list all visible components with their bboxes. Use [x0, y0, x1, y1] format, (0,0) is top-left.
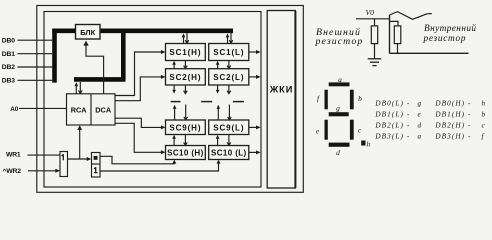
svg-text:f: f [482, 132, 485, 140]
wire block A to block B with arrow [68, 157, 92, 161]
7-segment: segment g [329, 112, 349, 116]
mapping table row DB2 [374, 121, 485, 129]
svg-text:^WR2: ^WR2 [3, 167, 22, 175]
mapping table row DB1 [374, 111, 486, 119]
svg-text:SC1(L): SC1(L) [213, 48, 244, 57]
arrow pair SC9(H)-SC10(H) [172, 135, 187, 146]
arrow pair SC1(L)-SC2(L) [216, 61, 231, 69]
svg-text:SC10 (H): SC10 (H) [167, 149, 204, 158]
svg-text:DB2: DB2 [2, 64, 15, 71]
arrow pair bus to SC1(H) [182, 33, 189, 44]
svg-text:SC9(L): SC9(L) [213, 123, 244, 132]
mapping table row DB3 [374, 132, 484, 140]
svg-text:DB0(L) -: DB0(L) - [374, 100, 410, 108]
7-segment: segment d [329, 143, 350, 147]
svg-text:DB2(L) -: DB2(L) - [374, 121, 410, 129]
svg-text:SC9(H): SC9(H) [169, 123, 201, 132]
svg-text:ЖКИ: ЖКИ [269, 85, 294, 95]
svg-text:d: d [418, 121, 423, 129]
svg-text:DB3(H) -: DB3(H) - [434, 132, 471, 140]
arrow SC9(L) to LCD [249, 125, 261, 129]
svg-text:A0: A0 [10, 106, 18, 113]
arrow SC2(L) to LCD [249, 75, 261, 79]
arrow SC1(L) to LCD [249, 50, 261, 54]
svg-text:RCA: RCA [71, 105, 88, 114]
svg-text:DB0(H) -: DB0(H) - [434, 100, 471, 108]
mapping table row DB0 [374, 100, 486, 108]
wire DCA to БЛК with up arrow [83, 41, 103, 94]
svg-text:g: g [336, 103, 340, 112]
svg-text:h: h [367, 140, 371, 149]
7-segment: segment a [329, 82, 350, 86]
svg-text:DB0: DB0 [2, 38, 15, 45]
inner frame [44, 12, 261, 188]
data bus middle vertical [121, 29, 126, 80]
wire rail corner down [389, 15, 391, 53]
7-segment: segment c [350, 120, 354, 140]
wire resistor to ground [374, 44, 376, 59]
data bus top horizontal [52, 28, 233, 33]
svg-text:b: b [358, 94, 362, 103]
register SC1(H) [166, 44, 206, 61]
svg-text:SC1(H): SC1(H) [169, 48, 201, 57]
register SC10(H) [166, 146, 206, 160]
wire DCA to SC2(H) [115, 75, 166, 101]
wire block B to SC10(L) bottom [100, 160, 221, 171]
wire V0 rail [356, 18, 390, 20]
block БЛК [76, 25, 101, 40]
arrow pair above SC9(H) [173, 105, 188, 121]
label internal resistor [423, 23, 477, 44]
register SC2(L) [209, 69, 249, 85]
svg-text:SC2(L): SC2(L) [213, 73, 244, 82]
svg-text:резистор: резистор [423, 34, 467, 44]
wire DB0 [18, 39, 53, 41]
svg-text:d: d [336, 148, 340, 157]
7-segment: segment e [325, 120, 328, 140]
wire WR1 [28, 154, 61, 156]
arrow pair SC1(H)-SC2(H) [172, 61, 187, 69]
wire block B to SC10(H) bottom [100, 156, 176, 164]
svg-text:DCA: DCA [95, 105, 112, 114]
svg-text:DB1: DB1 [2, 51, 15, 58]
svg-text:V0: V0 [366, 8, 375, 17]
wire stub to internal resistor [390, 21, 399, 26]
wire A0 [19, 107, 67, 109]
wire DCA to SC1(H) [115, 50, 166, 96]
ground [368, 59, 382, 66]
svg-text:e: e [316, 126, 320, 135]
block RCA / DCA [67, 94, 116, 125]
wire DB2 [18, 66, 53, 68]
svg-text:DB1(L) -: DB1(L) - [374, 111, 410, 119]
LCD box ЖКИ [267, 11, 295, 189]
wire DCA to SC9(H) [115, 118, 166, 129]
register SC9(L) [209, 120, 249, 135]
register SC1(L) [209, 44, 249, 61]
svg-text:a: a [338, 75, 342, 84]
svg-text:DB1(H) -: DB1(H) - [434, 111, 471, 119]
register SC2(H) [166, 69, 206, 85]
wire internal resistor to bottom rail [397, 44, 399, 54]
svg-text:DB3: DB3 [2, 78, 15, 85]
svg-text:c: c [482, 121, 486, 129]
svg-text:DB2(H) -: DB2(H) - [434, 121, 471, 129]
svg-text:резистор: резистор [315, 36, 364, 47]
svg-text:БЛК: БЛК [80, 28, 95, 37]
register SC10(L) [209, 146, 249, 160]
svg-text:e: e [418, 111, 422, 119]
wire WR2 with arrow into block A [28, 169, 60, 173]
wire DB1 [18, 53, 53, 55]
wire bottom rail [390, 52, 469, 54]
resistor internal [394, 26, 401, 44]
wire to external resistor [374, 19, 376, 26]
arrow pair above SC9(L) [217, 105, 232, 121]
wire DCA to SC10(H) [115, 123, 166, 154]
svg-text:Внутренний: Внутренний [424, 23, 476, 34]
small block A [60, 152, 68, 177]
svg-text:h: h [482, 100, 487, 108]
arrow pair below SC2(L) [216, 85, 231, 94]
small block B [92, 153, 101, 178]
switch squiggle [390, 12, 432, 20]
7-segment: dot h [361, 141, 365, 146]
svg-text:DB3(L) -: DB3(L) - [374, 132, 410, 140]
7-segment: segment b [350, 90, 354, 110]
svg-text:b: b [482, 111, 487, 119]
data bus stub to RCA [74, 77, 126, 82]
svg-text:g: g [418, 100, 423, 108]
svg-text:f: f [317, 94, 320, 103]
resistor external [371, 26, 377, 44]
outer frame [37, 6, 304, 193]
svg-text:c: c [358, 125, 362, 134]
svg-text:a: a [418, 132, 423, 140]
arrow pair below SC2(H) [172, 85, 187, 94]
register SC9(H) [166, 120, 206, 135]
wire DB3 [18, 79, 53, 81]
ellipsis dashes [171, 101, 244, 103]
wire junction up to RCA bottom arrow [77, 125, 82, 159]
bus-to-RCA arrow pair [75, 82, 83, 94]
svg-text:SC2(H): SC2(H) [169, 73, 201, 82]
svg-text:SC10 (L): SC10 (L) [211, 149, 247, 158]
label external resistor [315, 27, 364, 47]
arrow SC10(L) to LCD [249, 150, 261, 154]
7-segment: segment f [325, 90, 328, 110]
svg-text:WR1: WR1 [6, 152, 21, 159]
data bus left vertical [52, 29, 57, 83]
arrow pair bus to SC1(L) [226, 33, 233, 44]
arrow pair SC9(L)-SC10(L) [216, 135, 231, 146]
